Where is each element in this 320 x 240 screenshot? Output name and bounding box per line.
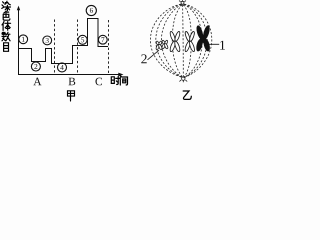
inner left fibre a [156,4,183,77]
circled labels 1-7 [19,5,107,72]
dashed phase boundary A|B [54,20,56,75]
label C [95,78,102,86]
label 2 [141,54,146,63]
y-axis [18,9,20,75]
x-axis phase letters [33,78,102,86]
glyph 染 [2,1,11,10]
circle 3 [43,36,52,45]
inner right fibre a [184,4,207,77]
dashed phase boundary B|C [77,20,79,75]
dashed boundary end of C [108,20,110,75]
pointer line for label 2 [148,50,160,60]
centre fibre [182,5,185,77]
glyph 体 [2,21,11,30]
y-axis caption 染色体数目 (drawn glyphs) [2,1,11,51]
glyph 数 [2,32,10,41]
black X chromosome (label 1 target) [195,25,210,52]
circle 6 [86,5,96,15]
spindle fibres (dashed) [150,4,211,78]
bottom centriole with aster [179,77,187,82]
fibre to chromosome 2 [183,5,191,78]
circle 2 [31,62,40,71]
label 1 [220,41,225,50]
glyph 间 [120,76,127,85]
inner left fibre [161,5,182,78]
circle 1 [19,35,28,44]
glyph 时 [111,76,120,84]
caption 甲 (drawn glyph) [68,91,75,101]
label B [69,78,76,85]
glyph 目 [4,43,9,52]
small white chromosome pair (label 2 target) [156,40,169,50]
fibre to chromosome 1 [172,5,183,78]
fibre to black chromosome [184,5,203,78]
circle 7 [98,35,107,44]
x-axis [18,74,119,76]
chromosome-count step curve [19,19,109,64]
outer right fibre [184,4,211,77]
white X chromosome 1 [169,31,181,52]
label A [33,78,41,86]
caption 乙 (drawn glyph) [183,91,191,99]
top centriole with aster [179,0,186,4]
x-axis caption 时间 (drawn glyphs) [111,76,127,85]
circle 5 [78,35,87,44]
white X chromosome 2 [184,31,195,52]
glyph 色 [3,11,10,20]
outer left fibre [150,4,182,77]
circle 4 [58,63,67,72]
pointer line for label 1 [209,43,219,45]
